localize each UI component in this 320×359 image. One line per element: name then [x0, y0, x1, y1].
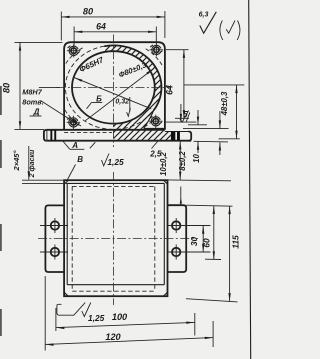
svg-text:64: 64 — [164, 85, 174, 95]
base strip top edge — [47, 129, 165, 131]
dim 64 top — [73, 27, 75, 46]
bottom view centerlines — [112, 172, 114, 305]
bottom edge extension right — [186, 299, 238, 302]
bore circle F65H7 — [72, 51, 155, 123]
flange square outline (80x80, rounded top corners) — [64, 42, 165, 130]
dim 120 — [44, 276, 46, 351]
left foot slot section bars — [50, 130, 52, 140]
ear top extension line right — [186, 205, 232, 206]
corner chamfer ticks — [64, 180, 68, 184]
dim 8+-0,2 arrows — [197, 110, 199, 125]
svg-text:8отв.: 8отв. — [22, 98, 43, 107]
right foot top edge — [165, 131, 191, 133]
svg-text:М8Н7: М8Н7 — [22, 88, 42, 97]
svg-text:1,25: 1,25 — [107, 157, 124, 167]
bottom view top edge extension right — [168, 179, 232, 182]
svg-text:Д: Д — [33, 108, 40, 117]
svg-text:64: 64 — [96, 22, 106, 32]
ear holes — [51, 221, 59, 229]
section hatch: boss annulus + gusset region — [104, 45, 161, 130]
svg-text:А: А — [71, 141, 78, 150]
right foot top thin line — [165, 121, 196, 123]
svg-text:10: 10 — [192, 154, 201, 163]
svg-text:80: 80 — [2, 82, 12, 93]
center lines of bore — [112, 35, 114, 148]
svg-text:120: 120 — [105, 332, 121, 342]
bolt circle dash-dot arcs near corner holes — [65, 48, 83, 65]
section hatch: right foot — [165, 132, 171, 141]
M8 tapped hole top-left — [67, 44, 81, 57]
leader F65H7 — [74, 78, 151, 109]
small arrow at foot top — [180, 104, 182, 122]
svg-text:1,25: 1,25 — [88, 313, 105, 323]
svg-text:48±0,3: 48±0,3 — [220, 91, 229, 116]
dim 80 top — [60, 12, 62, 41]
dim 115 — [229, 206, 231, 301]
chamfer inner lines — [67, 182, 164, 184]
svg-text:6,3: 6,3 — [199, 12, 209, 19]
svg-text:8±0,2: 8±0,2 — [178, 151, 187, 171]
svg-text:60: 60 — [201, 238, 211, 248]
spot-face pocket bottom edge — [144, 127, 165, 129]
dim 60 — [213, 206, 215, 260]
gusset fillet edge — [144, 110, 154, 128]
svg-text:В: В — [77, 155, 83, 164]
svg-text:100: 100 — [112, 312, 128, 322]
dim 64 right side — [166, 49, 189, 51]
svg-text:0,32: 0,32 — [115, 98, 129, 105]
dim 80 left side — [15, 41, 63, 43]
detail G frame at bottom-left corner — [57, 303, 85, 316]
left ear — [45, 205, 64, 272]
boss circle F80 hidden dashed arc — [65, 46, 156, 129]
M8 tapped hole bottom-right — [149, 115, 163, 128]
svg-text:2×45°: 2×45° — [12, 150, 21, 172]
M8 tapped hole top-right — [150, 43, 164, 56]
paper background — [0, 0, 253, 359]
scan smudges left edge — [0, 86, 2, 115]
dim 30 — [202, 226, 204, 253]
M8 tapped hole bottom-left — [67, 116, 81, 129]
svg-text:2 фаски: 2 фаски — [29, 149, 36, 178]
right foot slot section bars — [171, 132, 175, 141]
base strip left end (rounded) — [44, 130, 47, 141]
leader F80+-0,3 — [85, 69, 153, 121]
step edge near pocket — [160, 128, 162, 130]
ear hole centerlines — [40, 225, 68, 227]
svg-text:115: 115 — [231, 235, 241, 249]
section hatch: base strip center — [113, 130, 164, 141]
boss circle F80 solid sectioned arc — [104, 45, 161, 110]
right foot end (rounded) — [189, 132, 192, 141]
right ear — [168, 205, 187, 272]
dim extension lines between views right side — [184, 84, 244, 86]
svg-text:2,5: 2,5 — [149, 150, 162, 159]
dim 48+-0,3 — [236, 85, 238, 139]
sheet frame line (right border) — [249, 0, 251, 359]
hidden bore lines (dashed) — [71, 186, 73, 291]
bottom view body outline — [64, 180, 167, 296]
dim 10+-0,2 — [179, 141, 181, 180]
dim 100 — [55, 308, 57, 331]
svg-text:30: 30 — [189, 237, 199, 247]
dim 10 arrows — [219, 111, 221, 129]
svg-text:5: 5 — [183, 110, 188, 119]
top edge extension to left (for chamfer callout) — [22, 179, 64, 181]
base strip bottom edge — [47, 140, 191, 142]
svg-text:Б: Б — [96, 94, 102, 103]
svg-text:80: 80 — [83, 7, 94, 17]
small arrow near right ear top — [180, 187, 182, 206]
hidden slot line under flange (dashed) — [64, 131, 112, 133]
roughness 1,25 mid — [102, 154, 110, 166]
roughness 1,25 bottom — [82, 303, 91, 317]
